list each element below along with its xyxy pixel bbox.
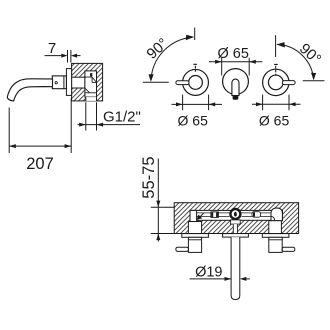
section left escutcheon flange	[182, 234, 209, 238]
section left union fitting	[211, 212, 219, 218]
side view spout supply connector through wall	[72, 77, 85, 88]
section wall band (hatched)	[174, 203, 298, 234]
section left valve body below wall	[188, 237, 201, 252]
section right union fitting	[252, 212, 261, 218]
side view concealed valve body	[85, 71, 97, 97]
front view left handle	[176, 64, 209, 95]
section mounting bracket strip with pipes	[190, 210, 283, 220]
dimension diameter 19	[190, 265, 250, 281]
section tee lower block	[231, 220, 241, 224]
section wall bottom line extended	[151, 233, 175, 235]
side view escutcheon plate	[66, 69, 71, 96]
section right escutcheon flange	[262, 234, 289, 238]
svg-text:55-75: 55-75	[140, 156, 158, 198]
section left riser column	[190, 210, 197, 221]
dimension diameter 65 center	[209, 46, 262, 75]
svg-text:Ø 65: Ø 65	[178, 112, 209, 128]
svg-text:90°: 90°	[143, 35, 171, 63]
side view curved spout	[7, 79, 52, 101]
front view center escutcheon with spout outlet	[223, 69, 249, 100]
section left lever	[176, 247, 189, 251]
dimension diameter 65 right	[252, 95, 301, 129]
section flow arrow at left elbow	[197, 213, 204, 220]
front view right handle	[263, 64, 296, 95]
dimension 55-75	[140, 156, 174, 241]
side view screw dot	[55, 82, 57, 84]
dimension G1/2"	[78, 102, 141, 130]
section right lever	[282, 247, 295, 251]
svg-text:90°: 90°	[296, 40, 324, 68]
section riser pipe in wall	[233, 224, 237, 233]
svg-text:7: 7	[48, 40, 56, 57]
side view wall section (hatched)	[72, 63, 103, 101]
section right elbow	[271, 208, 282, 221]
svg-text:Ø 65: Ø 65	[259, 112, 290, 128]
left 90 deg arc	[143, 28, 195, 83]
svg-text:207: 207	[26, 155, 54, 173]
section left valve in wall	[188, 222, 201, 234]
section spout supply pipe	[231, 237, 240, 300]
svg-text:Ø19: Ø19	[195, 265, 222, 281]
section right valve body below wall	[269, 237, 282, 252]
side view spout body cylinder	[52, 76, 66, 89]
side view valve inlet stub G1/2	[86, 97, 97, 101]
svg-text:Ø 65: Ø 65	[217, 46, 248, 62]
section center tee	[230, 209, 240, 219]
svg-text:G1/2": G1/2"	[103, 109, 141, 126]
dimension diameter 65 left	[172, 95, 223, 129]
section center spout flange	[223, 234, 249, 238]
dimension 207	[9, 98, 71, 173]
section right valve in wall	[269, 221, 282, 234]
dimension 7	[45, 40, 81, 62]
right 90 deg arc	[276, 35, 325, 80]
